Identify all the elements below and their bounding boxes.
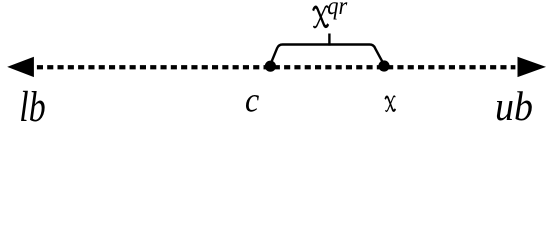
number line (dashed) bbox=[37, 65, 516, 69]
bracket center tick bbox=[328, 34, 330, 46]
left arrowhead bbox=[7, 57, 34, 77]
svg-text:lb: lb bbox=[19, 83, 45, 126]
label lb bbox=[19, 83, 45, 131]
right arrowhead bbox=[518, 57, 547, 77]
svg-text:ub: ub bbox=[495, 82, 533, 126]
label x^qr : base x bbox=[313, 6, 328, 27]
svg-text:c: c bbox=[245, 81, 259, 120]
label ub bbox=[495, 82, 533, 129]
bracket over [c,x] bbox=[270, 45, 384, 65]
dot c bbox=[265, 61, 276, 72]
label c bbox=[245, 81, 259, 120]
label x bbox=[385, 96, 395, 111]
svg-text:qr: qr bbox=[327, 0, 348, 20]
dot x bbox=[378, 60, 389, 71]
label x^qr : superscript qr bbox=[327, 0, 348, 20]
